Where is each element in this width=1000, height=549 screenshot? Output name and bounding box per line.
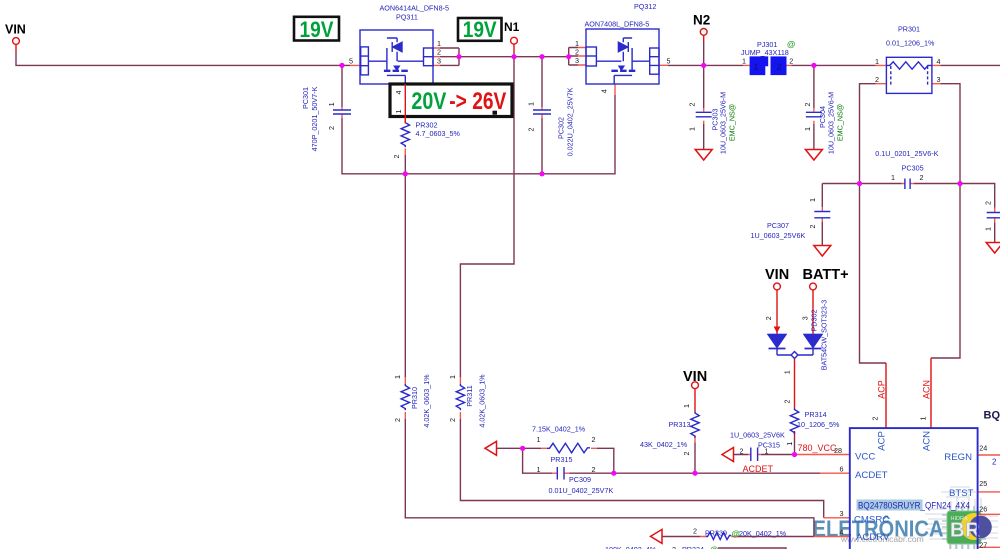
svg-text:2: 2 xyxy=(764,316,773,320)
svg-text:PC309: PC309 xyxy=(569,475,591,484)
svg-text:0.01U_0402_25V7K: 0.01U_0402_25V7K xyxy=(549,486,614,495)
svg-text:PR301: PR301 xyxy=(898,25,920,34)
svg-text:19V: 19V xyxy=(300,17,334,42)
svg-text:VIN: VIN xyxy=(765,267,789,283)
svg-text:AON6414AL_DFN8-5: AON6414AL_DFN8-5 xyxy=(380,4,450,13)
svg-text:2: 2 xyxy=(984,201,993,205)
svg-text:PC302: PC302 xyxy=(557,117,566,139)
svg-text:3: 3 xyxy=(840,509,844,518)
svg-text:ACN: ACN xyxy=(922,380,932,399)
svg-text:2: 2 xyxy=(920,173,924,182)
svg-text:1U_0603_25V6K: 1U_0603_25V6K xyxy=(730,430,785,439)
svg-text:10U_0603_25V6-M: 10U_0603_25V6-M xyxy=(719,92,728,154)
svg-text:@: @ xyxy=(787,39,795,49)
svg-text:26: 26 xyxy=(979,504,987,513)
svg-text:4: 4 xyxy=(937,57,941,66)
svg-text:1: 1 xyxy=(448,375,457,379)
svg-text:PC315: PC315 xyxy=(758,440,780,449)
svg-text:0.1U_0201_25V6-K: 0.1U_0201_25V6-K xyxy=(875,149,938,158)
svg-text:1: 1 xyxy=(394,110,403,114)
svg-text:1: 1 xyxy=(984,227,993,231)
svg-text:2: 2 xyxy=(448,418,457,422)
svg-text:10U_0603_25V6-M: 10U_0603_25V6-M xyxy=(827,92,836,154)
svg-text:ACDET: ACDET xyxy=(743,464,774,474)
svg-text:2: 2 xyxy=(437,48,441,57)
svg-text:2: 2 xyxy=(803,103,812,107)
svg-text:1: 1 xyxy=(742,56,746,65)
svg-text:2: 2 xyxy=(592,435,596,444)
svg-text:VCC: VCC xyxy=(855,452,875,463)
svg-text:28: 28 xyxy=(834,446,842,455)
svg-text:2: 2 xyxy=(808,225,817,229)
svg-text:ACDET: ACDET xyxy=(855,470,888,481)
svg-text:1: 1 xyxy=(785,442,794,446)
svg-text:REGN: REGN xyxy=(944,452,972,463)
svg-text:PD302: PD302 xyxy=(810,310,819,332)
svg-text:CMSRC: CMSRC xyxy=(854,515,889,526)
svg-text:2: 2 xyxy=(672,545,676,549)
svg-text:24: 24 xyxy=(979,443,987,452)
svg-text:2: 2 xyxy=(875,75,879,84)
svg-text:1U_0603_25V6K: 1U_0603_25V6K xyxy=(751,231,806,240)
svg-text:2: 2 xyxy=(327,126,336,130)
svg-text:2: 2 xyxy=(688,103,697,107)
svg-text:N2: N2 xyxy=(693,13,710,28)
svg-text:3: 3 xyxy=(575,56,579,65)
svg-text:1: 1 xyxy=(919,417,928,421)
svg-text:PR334: PR334 xyxy=(682,545,704,549)
svg-text:1: 1 xyxy=(437,39,441,48)
svg-text:7.15K_0402_1%: 7.15K_0402_1% xyxy=(532,425,586,434)
svg-text:@: @ xyxy=(710,545,718,549)
svg-text:4: 4 xyxy=(394,91,403,95)
svg-text:25: 25 xyxy=(979,479,987,488)
svg-text:1: 1 xyxy=(327,102,336,106)
svg-text:BTST: BTST xyxy=(949,488,974,499)
svg-text:4.02K_0603_1%: 4.02K_0603_1% xyxy=(422,374,431,428)
svg-text:2: 2 xyxy=(789,56,793,65)
svg-text:0.01_1206_1%: 0.01_1206_1% xyxy=(886,39,935,48)
svg-text:5: 5 xyxy=(667,57,671,66)
svg-text:EMC_NS@: EMC_NS@ xyxy=(728,104,737,141)
svg-text:1: 1 xyxy=(753,62,758,72)
svg-text:PC305: PC305 xyxy=(902,164,924,173)
svg-text:PC307: PC307 xyxy=(767,221,789,230)
svg-text:20K_0402_1%: 20K_0402_1% xyxy=(739,529,787,538)
svg-text:2: 2 xyxy=(392,155,401,159)
svg-text:2: 2 xyxy=(776,62,781,72)
svg-text:4.02K_0603_1%: 4.02K_0603_1% xyxy=(478,374,487,428)
svg-text:BAT54CW_SOT323-3: BAT54CW_SOT323-3 xyxy=(820,300,829,371)
svg-text:1: 1 xyxy=(783,370,792,374)
svg-text:-> 26V: -> 26V xyxy=(449,88,506,115)
svg-text:20V: 20V xyxy=(411,88,446,115)
svg-text:ACP: ACP xyxy=(877,380,887,399)
svg-text:PC301: PC301 xyxy=(301,87,310,109)
svg-text:JUMP_43X118: JUMP_43X118 xyxy=(741,48,789,57)
svg-text:1: 1 xyxy=(527,102,536,106)
svg-text:2: 2 xyxy=(592,465,596,474)
svg-text:27: 27 xyxy=(979,541,987,549)
svg-text:PR302: PR302 xyxy=(416,120,438,129)
svg-text:1: 1 xyxy=(537,465,541,474)
svg-text:@: @ xyxy=(732,528,740,538)
svg-text:BQ24780SRUYR_QFN24_4X4: BQ24780SRUYR_QFN24_4X4 xyxy=(858,500,970,510)
svg-text:100K_0402_4%: 100K_0402_4% xyxy=(605,545,657,549)
svg-text:2: 2 xyxy=(682,452,691,456)
svg-text:10_1206_5%: 10_1206_5% xyxy=(797,420,840,429)
svg-text:PR313: PR313 xyxy=(669,420,691,429)
svg-text:6: 6 xyxy=(840,464,844,473)
svg-text:BQ: BQ xyxy=(984,410,1000,422)
svg-text:2: 2 xyxy=(740,446,744,455)
svg-text:2: 2 xyxy=(992,458,997,467)
svg-text:43K_0402_1%: 43K_0402_1% xyxy=(640,440,688,449)
svg-text:PQ312: PQ312 xyxy=(634,2,656,11)
svg-text:5: 5 xyxy=(349,57,353,66)
svg-text:2: 2 xyxy=(783,400,792,404)
svg-text:780_VCC: 780_VCC xyxy=(798,443,838,453)
svg-text:PR314: PR314 xyxy=(805,410,827,419)
svg-text:ACN: ACN xyxy=(922,431,933,451)
svg-text:1: 1 xyxy=(875,57,879,66)
svg-text:1: 1 xyxy=(808,198,817,202)
svg-text:1: 1 xyxy=(682,404,691,408)
svg-text:ACDRV: ACDRV xyxy=(856,532,890,543)
svg-text:4.7_0603_5%: 4.7_0603_5% xyxy=(416,129,461,138)
svg-text:N1: N1 xyxy=(504,20,520,34)
svg-text:ACP: ACP xyxy=(877,431,888,451)
svg-text:1: 1 xyxy=(891,173,895,182)
svg-text:1: 1 xyxy=(393,375,402,379)
svg-text:PQ311: PQ311 xyxy=(396,13,418,22)
svg-text:4: 4 xyxy=(600,89,609,93)
svg-text:1: 1 xyxy=(803,127,812,131)
svg-text:3: 3 xyxy=(801,316,810,320)
svg-text:VIN: VIN xyxy=(683,369,707,385)
svg-text:2: 2 xyxy=(693,527,697,536)
svg-text:2: 2 xyxy=(393,418,402,422)
svg-text:PR339: PR339 xyxy=(705,528,727,537)
svg-text:19V: 19V xyxy=(463,17,497,42)
svg-text:BATT+: BATT+ xyxy=(803,267,849,283)
svg-text:PR311: PR311 xyxy=(465,385,474,406)
svg-text:VIN: VIN xyxy=(5,23,26,37)
svg-text:AON7408L_DFN8-5: AON7408L_DFN8-5 xyxy=(585,20,650,29)
svg-text:PR310: PR310 xyxy=(410,387,419,409)
svg-text:1: 1 xyxy=(537,435,541,444)
svg-text:2: 2 xyxy=(871,417,880,421)
svg-text:1: 1 xyxy=(765,446,769,455)
svg-text:BR: BR xyxy=(950,519,981,542)
svg-text:3: 3 xyxy=(937,75,941,84)
svg-text:470P_0201_50V7-K: 470P_0201_50V7-K xyxy=(310,86,319,151)
svg-text:4: 4 xyxy=(840,527,844,536)
svg-text:3: 3 xyxy=(437,56,441,65)
svg-text:1: 1 xyxy=(688,127,697,131)
svg-text:PR315: PR315 xyxy=(551,455,573,464)
svg-text:2: 2 xyxy=(527,128,536,132)
svg-text:EMC_NS@: EMC_NS@ xyxy=(836,104,845,141)
svg-text:0.022U_0402_25V7K: 0.022U_0402_25V7K xyxy=(566,87,575,156)
